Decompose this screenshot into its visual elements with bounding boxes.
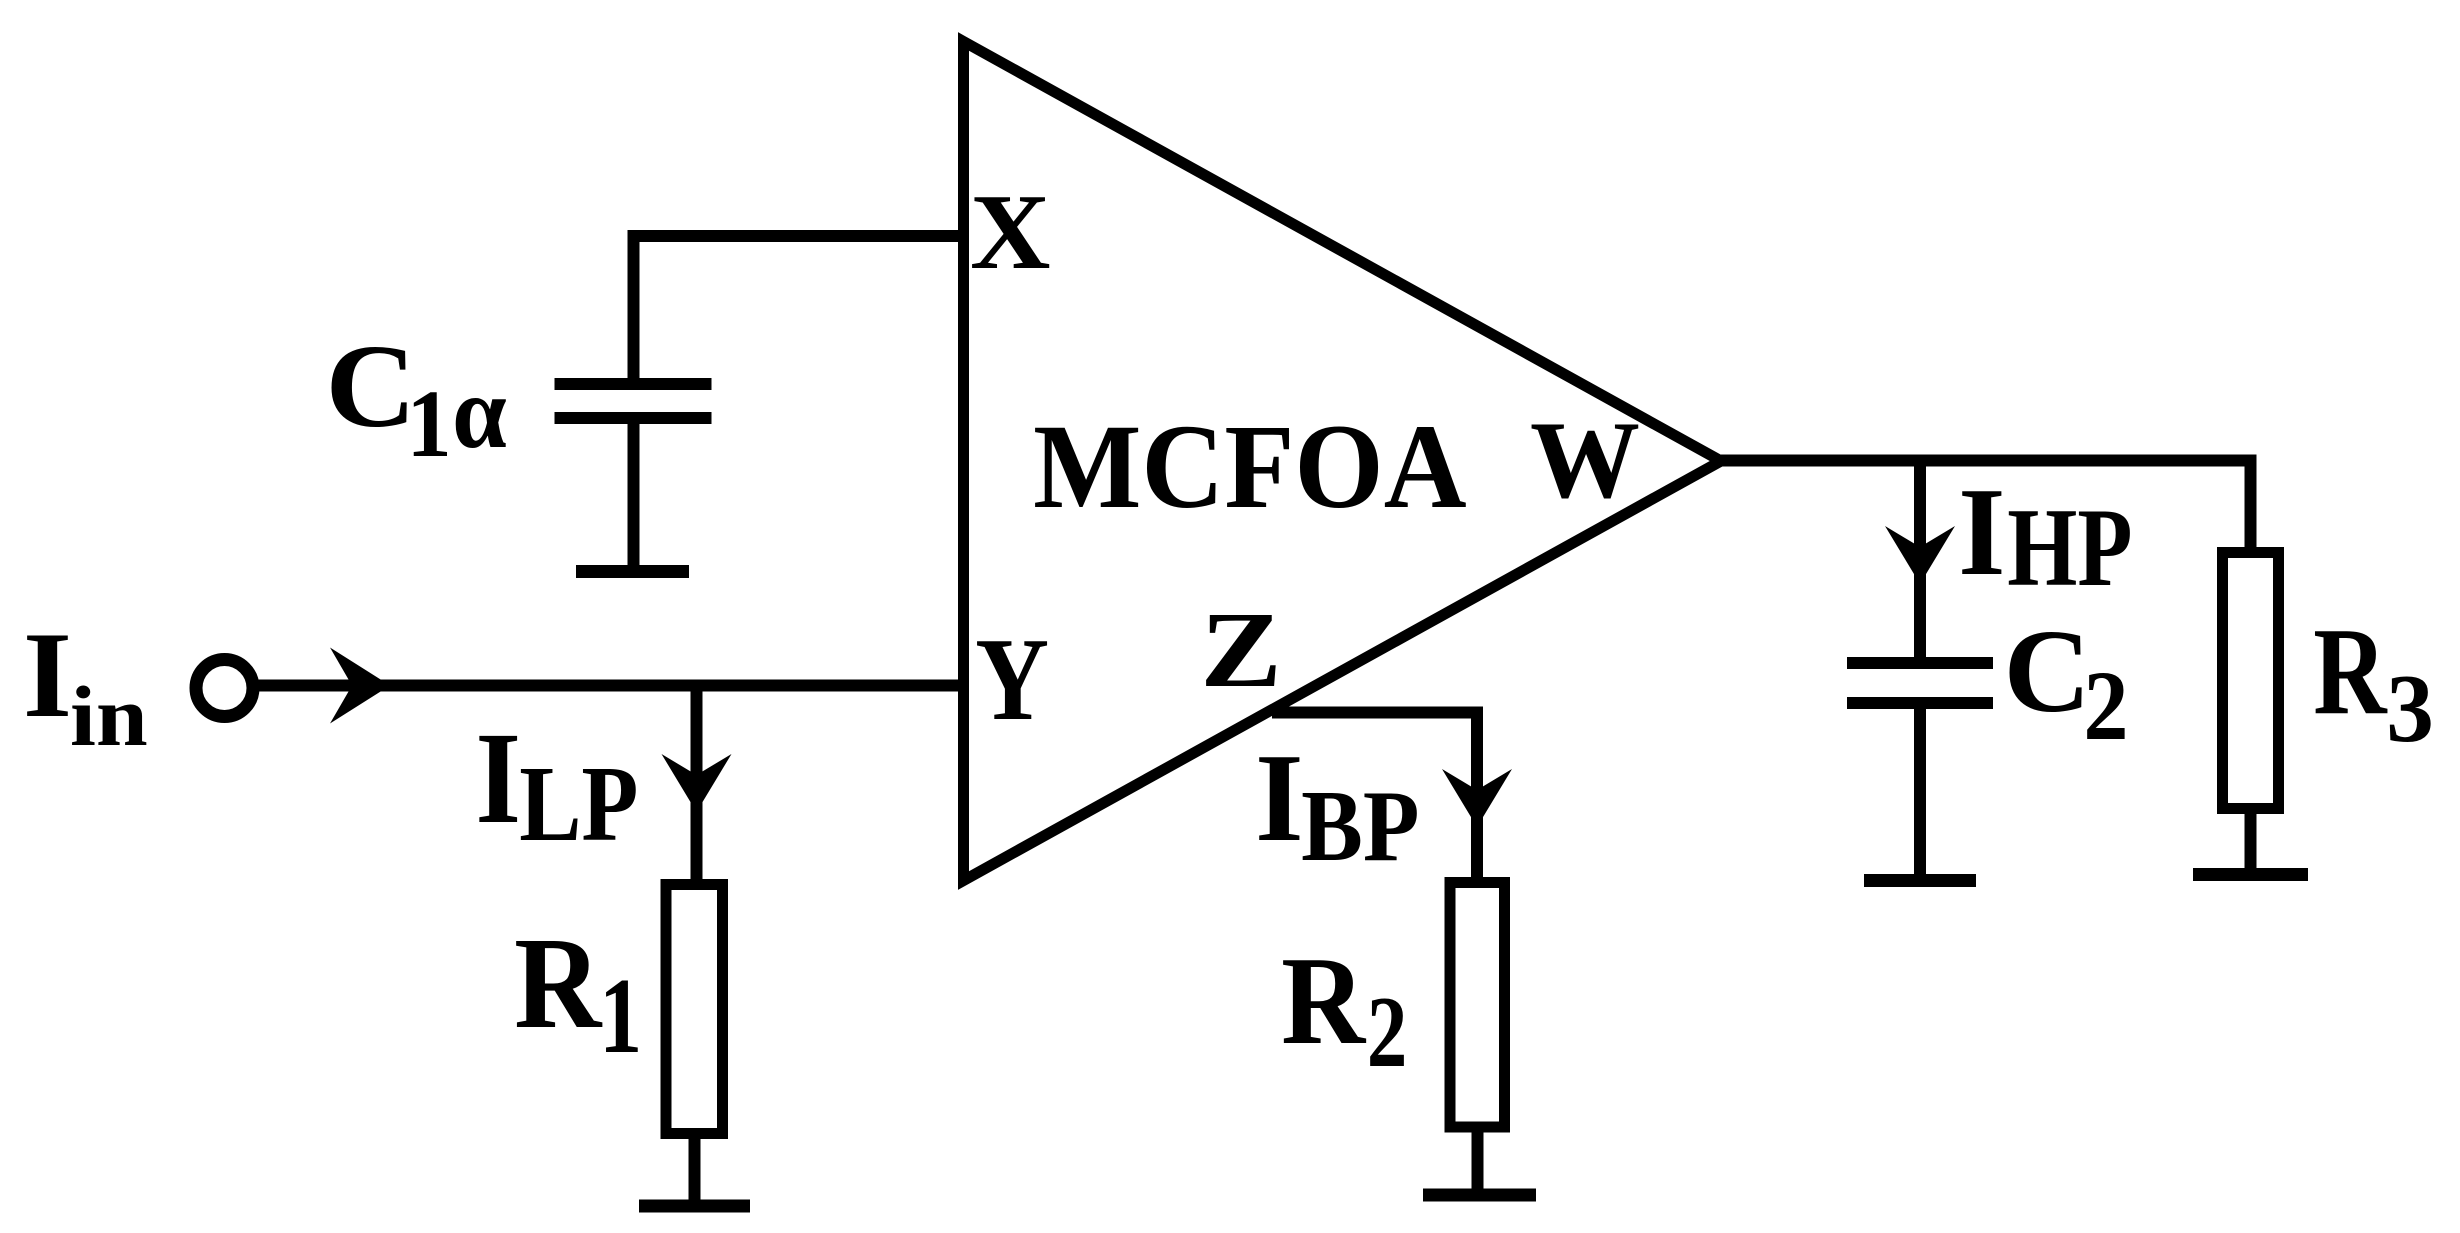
svg-text:2: 2 xyxy=(1367,975,1408,1088)
current arrow IHP xyxy=(1885,526,1955,584)
resistor R3 xyxy=(2223,553,2279,809)
wire Z pin to R2 xyxy=(1272,713,1477,880)
wire input to Y pin xyxy=(258,680,963,692)
svg-text:C: C xyxy=(2004,605,2091,737)
svg-text:I: I xyxy=(1255,728,1304,868)
resistor R2 xyxy=(1450,883,1505,1128)
svg-text:C: C xyxy=(325,321,416,452)
wire W output xyxy=(1721,461,2251,548)
svg-text:I: I xyxy=(1958,461,2005,602)
svg-text:X: X xyxy=(970,171,1051,291)
wire C2 to ground xyxy=(1914,703,1926,880)
resistor R1 xyxy=(666,885,723,1134)
ground (R1) xyxy=(639,1200,750,1213)
capacitor C1a xyxy=(555,378,712,390)
input current arrow xyxy=(330,648,390,724)
wire Y junction down to R1 xyxy=(691,686,703,880)
wire R2 to ground xyxy=(1472,1132,1484,1195)
node input terminal circle xyxy=(196,660,253,717)
svg-text:R: R xyxy=(514,911,603,1056)
svg-text:α: α xyxy=(452,354,507,469)
wire R1 to ground xyxy=(689,1139,701,1206)
svg-text:in: in xyxy=(70,669,148,764)
wire W to C2 branch xyxy=(1914,461,1926,664)
svg-text:Z: Z xyxy=(1200,590,1282,710)
ground (C2) xyxy=(1864,874,1976,887)
svg-text:3: 3 xyxy=(2386,654,2434,762)
op-amp U1 MCFOA triangle xyxy=(964,42,1722,881)
svg-text:1: 1 xyxy=(599,957,642,1076)
current arrow ILP xyxy=(662,754,732,812)
wire C1a to ground xyxy=(628,418,640,571)
svg-text:R: R xyxy=(2313,602,2388,740)
svg-text:W: W xyxy=(1530,399,1640,521)
svg-text:MCFOA: MCFOA xyxy=(1033,399,1467,533)
current arrow IBP xyxy=(1442,769,1512,827)
svg-text:Y: Y xyxy=(975,613,1049,745)
svg-text:BP: BP xyxy=(1301,770,1419,883)
ground (R3) xyxy=(2193,868,2308,881)
wire X pin xyxy=(634,236,964,384)
ground (R2) xyxy=(1423,1189,1536,1202)
wire R3 to ground xyxy=(2245,814,2257,874)
svg-text:I: I xyxy=(475,705,521,851)
svg-text:I: I xyxy=(23,606,72,742)
capacitor C2 xyxy=(1847,657,1993,669)
svg-text:HP: HP xyxy=(2007,486,2132,611)
ground (C1a) xyxy=(576,565,689,578)
svg-text:R: R xyxy=(1281,932,1366,1072)
svg-text:2: 2 xyxy=(2083,650,2128,761)
svg-text:1: 1 xyxy=(407,372,452,478)
svg-text:LP: LP xyxy=(519,744,638,864)
